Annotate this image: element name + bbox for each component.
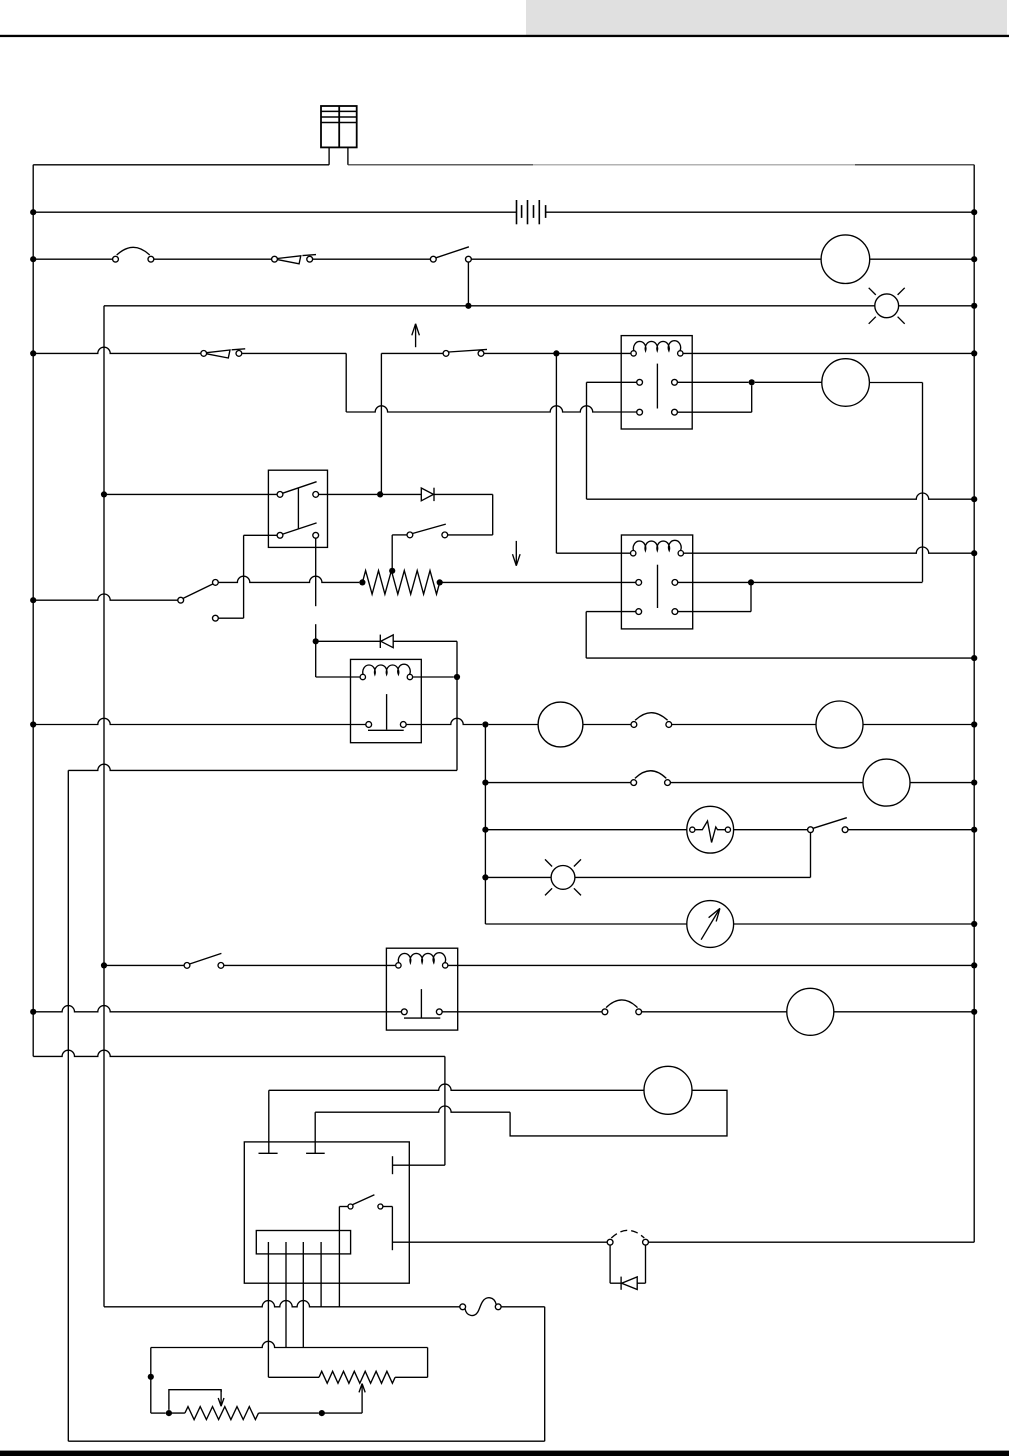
arrow up annotation bbox=[415, 324, 417, 347]
node rung8 right bbox=[971, 827, 977, 833]
wire right bus VR bbox=[973, 165, 975, 1242]
wire S10 left bbox=[339, 1206, 348, 1208]
wire ground bus VL3 bbox=[67, 770, 69, 1441]
wire CB5 bypass right bbox=[645, 1245, 647, 1283]
node return1 right bbox=[971, 496, 977, 502]
relay K3 body bbox=[351, 659, 422, 742]
wire K2 coil right bbox=[684, 547, 975, 553]
wire return line 2 bbox=[586, 657, 974, 659]
wire bottom return bbox=[68, 1440, 544, 1442]
node resistor R1 tap bbox=[389, 568, 395, 574]
wire S8 drop bbox=[810, 833, 812, 878]
meter M6 bbox=[687, 901, 734, 948]
wire K1 lower contact right bbox=[677, 411, 751, 413]
wire K1 left contact drop bbox=[586, 382, 588, 499]
wire rung6 a bbox=[33, 718, 366, 724]
electrode E1 bbox=[259, 1152, 278, 1154]
motor M7 bbox=[787, 988, 834, 1035]
relay K2 contact NO lower bbox=[636, 609, 642, 615]
node rung5 left bbox=[30, 597, 36, 603]
wire motor loop b bbox=[510, 1090, 727, 1136]
wire rung3 b bbox=[899, 305, 975, 307]
node rung6 right bbox=[971, 721, 977, 727]
wire top feeder right bbox=[348, 164, 533, 166]
wire rung6 f bbox=[863, 724, 974, 726]
wire resistor rung a bbox=[218, 576, 359, 582]
wire rung13 bbox=[33, 1050, 445, 1056]
wire rung8 c bbox=[848, 829, 974, 831]
switch S8 bbox=[808, 827, 814, 833]
wire CB5 bypass bottom a bbox=[610, 1282, 622, 1284]
connector J1 body bbox=[321, 106, 357, 147]
wiper arrow R3 bbox=[220, 1390, 222, 1407]
wire rung9 b bbox=[575, 876, 811, 878]
switch S6 upper contacts bbox=[277, 492, 283, 498]
wire battery rung left bbox=[33, 211, 516, 213]
node rung9 left bbox=[482, 874, 488, 880]
fuse F1 bbox=[460, 1304, 466, 1310]
switch S6 gang bar bbox=[297, 488, 299, 528]
node K1 contact junction bbox=[749, 379, 755, 385]
wire rung10 b bbox=[734, 923, 975, 925]
condenser lead bbox=[391, 1207, 393, 1251]
node K2 contact junction bbox=[748, 579, 754, 585]
wire rung4 e bbox=[683, 352, 974, 354]
resistor R3 bbox=[185, 1407, 259, 1420]
contact S1 (normally closed) bbox=[272, 256, 278, 262]
wire S10 right bbox=[383, 1206, 393, 1208]
wire diode2 corner drop bbox=[456, 641, 458, 677]
relay K4 body bbox=[386, 948, 457, 1030]
diode CR3 bbox=[622, 1277, 638, 1290]
wire pin1 corner bbox=[268, 1376, 319, 1378]
wire S2 drop bbox=[467, 262, 469, 306]
wire rung4 a bbox=[33, 347, 201, 353]
circuit breaker CB1 bbox=[113, 256, 119, 262]
wire rung2 b bbox=[154, 258, 272, 260]
wire left bus VL1 bbox=[32, 165, 34, 1057]
relay K1 contact NO upper bbox=[637, 379, 643, 385]
relay K2 coil bbox=[631, 551, 636, 556]
relay K1 coil bbox=[631, 351, 636, 356]
node S6 feed bbox=[101, 491, 107, 497]
circuit breaker CB5 bbox=[607, 1239, 613, 1245]
node rung2 left bbox=[30, 256, 36, 262]
wire rung11 a bbox=[104, 964, 184, 966]
coil pack body bbox=[256, 1231, 350, 1254]
wire J1 right lead bbox=[347, 147, 349, 164]
wire rung15 b bbox=[501, 1306, 545, 1308]
wire rung2 a bbox=[33, 258, 112, 260]
node K3 coil out bbox=[454, 674, 460, 680]
wire rung7 c bbox=[910, 782, 974, 784]
wire diode line a bbox=[319, 493, 377, 495]
lamp DS2 bbox=[551, 866, 575, 890]
motor M4 bbox=[816, 701, 863, 748]
wire S10 drop bbox=[338, 1207, 340, 1307]
wire rung2 e bbox=[870, 258, 975, 260]
diode CR1 bbox=[421, 488, 433, 501]
wire diode line corner bbox=[492, 494, 494, 535]
wire diode2 line a bbox=[316, 640, 381, 642]
wire to M2 bbox=[755, 381, 822, 383]
electrode E2 bbox=[306, 1152, 325, 1154]
wire K2 lower drop bbox=[585, 612, 587, 659]
motor M5 bbox=[863, 759, 910, 806]
wire rung16 to R2 bbox=[395, 1376, 428, 1378]
wire rung8 b bbox=[734, 829, 808, 831]
switch S6 upper blade bbox=[283, 482, 317, 494]
wire rung4 d bbox=[484, 352, 631, 354]
node return2 right bbox=[971, 655, 977, 661]
node rung10 right bbox=[971, 921, 977, 927]
motor M1 bbox=[821, 235, 870, 284]
wire rung14 a bbox=[392, 1241, 607, 1243]
wire J1 left lead bbox=[328, 147, 330, 164]
relay K1 contact NO lower bbox=[637, 409, 643, 415]
wire rung2 d bbox=[471, 258, 821, 260]
wire rung10 a bbox=[485, 923, 686, 925]
wire rung14 b bbox=[648, 1241, 974, 1243]
relay K4 contacts bbox=[401, 1009, 407, 1015]
wire interlock drop bbox=[380, 353, 382, 494]
wire electrode lead 2 bbox=[314, 1112, 316, 1153]
wire rung9 a bbox=[485, 876, 551, 878]
wire K1 upper contact right bbox=[677, 381, 748, 383]
wire R3 right bbox=[259, 1412, 319, 1414]
wire S6 lower drop upper bbox=[315, 538, 317, 606]
wire rung16 left drop bbox=[150, 1348, 152, 1414]
wire rung11 c bbox=[448, 964, 974, 966]
wire diode2 line b bbox=[393, 640, 457, 642]
wire top feeder left bbox=[33, 164, 329, 166]
coil pack pin 1 bbox=[267, 1242, 269, 1377]
wire R3 lead bbox=[169, 1412, 185, 1414]
switch S5 common bbox=[178, 597, 184, 603]
wire K3 coil right bbox=[413, 676, 454, 678]
wire rung11 b bbox=[224, 964, 396, 966]
connector J1 row line 1 bbox=[321, 110, 357, 112]
distributor body bbox=[244, 1142, 409, 1283]
wire battery rung right bbox=[546, 211, 975, 213]
node rung4 right bbox=[971, 350, 977, 356]
node accessory bus top bbox=[482, 721, 488, 727]
relay K2 contact NO upper bbox=[636, 580, 642, 586]
switch S5 blade bbox=[183, 584, 213, 599]
wire electrode feed bbox=[393, 1164, 445, 1166]
coil pack pin 2 bbox=[285, 1242, 287, 1348]
switch S6 lower blade bbox=[283, 523, 317, 534]
wire rung7 a bbox=[485, 782, 630, 784]
footer rule bbox=[0, 1451, 1009, 1456]
switch S9 bbox=[184, 963, 190, 969]
wire motor loop c bbox=[315, 1106, 510, 1112]
switch S5 throw B bbox=[213, 615, 219, 621]
wire rung4 c bbox=[381, 352, 443, 354]
node rung11 right bbox=[971, 962, 977, 968]
node rung12 left bbox=[30, 1009, 36, 1015]
node battery rung right bbox=[971, 209, 977, 215]
relay K2 armature bbox=[657, 565, 659, 608]
wire rung8 a bbox=[485, 829, 686, 831]
wire rung16 drop bbox=[427, 1348, 429, 1378]
contact S3 (normally closed) bbox=[201, 351, 207, 357]
wire rung12 a bbox=[33, 1006, 401, 1012]
wire electrode lead 1 bbox=[268, 1090, 270, 1153]
wire rung12 d bbox=[834, 1011, 974, 1013]
wire diode line b bbox=[380, 493, 421, 495]
wire rung2 c bbox=[313, 258, 431, 260]
node resistor R1 right bbox=[437, 579, 443, 585]
wire CB5 bypass left bbox=[609, 1245, 611, 1283]
diode CR2 bbox=[381, 635, 393, 648]
wire K3 out drop bbox=[456, 677, 458, 770]
node relay K1 coil feed bbox=[553, 350, 559, 356]
wire rung15 a bbox=[104, 1301, 460, 1307]
node rung8 left bbox=[482, 827, 488, 833]
circuit breaker CB3 bbox=[631, 780, 637, 786]
wiper arrow R2 bbox=[361, 1384, 363, 1414]
switch S6 body bbox=[268, 470, 327, 547]
switch S10 contacts bbox=[348, 1204, 353, 1209]
wire rung6 d bbox=[583, 724, 631, 726]
wire K1 upper contact left bbox=[587, 381, 637, 383]
node rung12 right bbox=[971, 1009, 977, 1015]
wire rung5 bbox=[33, 594, 178, 600]
relay K3 contacts bbox=[366, 722, 372, 728]
node K2 coil right bbox=[971, 550, 977, 556]
wire S7 to tap bbox=[392, 534, 407, 536]
arrow down annotation bbox=[515, 541, 517, 566]
wire M2 out bbox=[869, 382, 922, 384]
coil pack pin 3 bbox=[302, 1242, 304, 1348]
wire motor loop a bbox=[269, 1084, 644, 1090]
node rung7 left bbox=[482, 780, 488, 786]
circuit breaker CB2 bbox=[631, 722, 637, 728]
wire rung16 bbox=[151, 1341, 428, 1347]
node rung3 right bbox=[971, 303, 977, 309]
motor M8 bbox=[644, 1066, 692, 1114]
wire S6 feed bbox=[104, 493, 277, 495]
node diode2 junction bbox=[313, 638, 319, 644]
connector J1 row line 3 bbox=[321, 122, 357, 124]
wire return line 1 bbox=[587, 493, 975, 499]
wire rung4 corner drop bbox=[345, 353, 347, 412]
node terminal A bbox=[148, 1374, 154, 1380]
wire R3 feed bbox=[151, 1412, 166, 1414]
lamp DS1 bbox=[875, 294, 899, 318]
wire K3 coil left bbox=[316, 676, 360, 678]
battery BT1 bbox=[516, 200, 518, 224]
header rule bbox=[0, 35, 1009, 37]
relay K3 coil bbox=[360, 674, 365, 679]
node rung2 right bbox=[971, 256, 977, 262]
wire rung6 c bbox=[489, 724, 538, 726]
wire diode line c bbox=[434, 493, 492, 495]
wire rung6 e bbox=[672, 724, 816, 726]
connector J1 divider bbox=[338, 106, 340, 147]
wire secondary bus VL2 bbox=[103, 306, 105, 1307]
wire resistor rung b bbox=[440, 581, 636, 583]
relay K4 armature bbox=[420, 989, 422, 1018]
wire S6 lower drop lower bbox=[315, 624, 317, 677]
relay K4 coil bbox=[396, 963, 401, 968]
motor M3 bbox=[538, 702, 583, 747]
wire K2 lower contact left bbox=[586, 611, 636, 613]
wire rung13 drop bbox=[444, 1056, 446, 1165]
relay K1 body bbox=[621, 336, 692, 429]
node rung6 left bbox=[30, 721, 36, 727]
resistor R1 bbox=[362, 571, 439, 595]
node rung4 left bbox=[30, 350, 36, 356]
coil pack pin 4 bbox=[320, 1242, 322, 1307]
switch S2 bbox=[430, 256, 436, 262]
node R2 wiper feed bbox=[319, 1410, 325, 1416]
node rung7 right bbox=[971, 780, 977, 786]
relay K3 armature bbox=[386, 694, 388, 730]
node rung11 left bbox=[101, 962, 107, 968]
wire accessory bus bbox=[484, 725, 486, 925]
wire K2 lower contact link bbox=[750, 582, 752, 611]
wire K2 coil feed drop bbox=[555, 353, 557, 553]
relay K4 contact bar bbox=[404, 1017, 440, 1019]
wire rung12 b bbox=[442, 1011, 602, 1013]
wiper link R3 bbox=[169, 1390, 221, 1410]
relay K2 body bbox=[621, 535, 692, 629]
wire return line 3 bbox=[68, 764, 457, 770]
node R3 left bbox=[166, 1410, 172, 1416]
electrode E3 bbox=[392, 1156, 394, 1174]
connector J1 row line 2 bbox=[321, 116, 357, 118]
wire S5 throw B link bbox=[218, 617, 243, 619]
node interlock junction bbox=[377, 491, 383, 497]
wire wiper feed bbox=[322, 1412, 362, 1414]
wire rung12 c bbox=[642, 1011, 787, 1013]
header grey block bbox=[526, 0, 1007, 35]
motor M2 bbox=[822, 359, 870, 407]
wire K2 coil left bbox=[556, 552, 630, 554]
circuit breaker CB4 bbox=[602, 1009, 608, 1015]
wire M2 drop bbox=[922, 383, 924, 582]
node resistor R1 left bbox=[359, 579, 365, 585]
switch S4 bbox=[443, 351, 449, 357]
wire rung6 b bbox=[406, 718, 482, 724]
wire CB5 bypass bottom b bbox=[637, 1282, 645, 1284]
wire rung7 b bbox=[670, 782, 863, 784]
wire rung3 a bbox=[104, 305, 875, 307]
wire rung4 b bbox=[242, 352, 346, 354]
switch S10 blade bbox=[353, 1195, 375, 1205]
wire hold line bbox=[346, 406, 637, 412]
relay K3 contact bar bbox=[368, 729, 404, 731]
sender G1 bbox=[687, 806, 734, 853]
switch S6 lower contacts bbox=[277, 532, 283, 538]
wire resistor rung c bbox=[678, 581, 923, 583]
switch S5 throw A bbox=[213, 580, 219, 586]
switch S7 bbox=[407, 532, 413, 538]
wire rung15 drop bbox=[544, 1307, 546, 1441]
relay K1 armature bbox=[656, 364, 658, 409]
resistor R2 bbox=[319, 1371, 395, 1383]
node S2 drop junction bbox=[465, 303, 471, 309]
node battery rung left bbox=[30, 209, 36, 215]
